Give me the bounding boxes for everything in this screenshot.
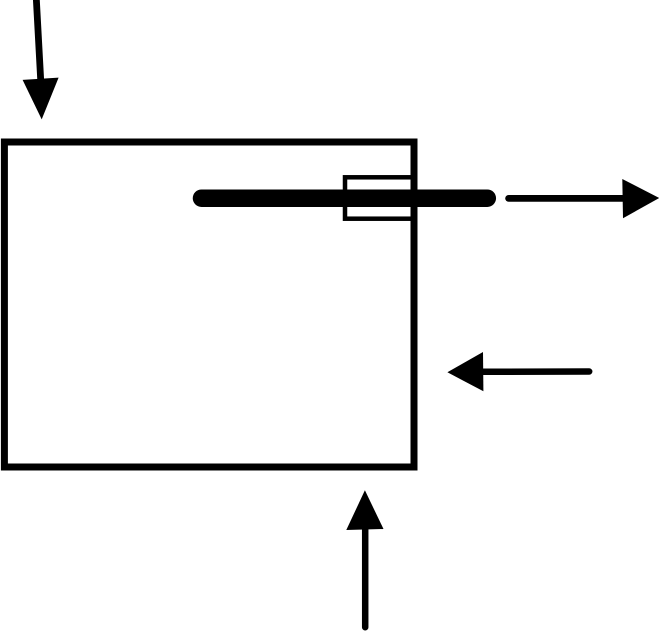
leftward force arrow shaft	[483, 368, 589, 375]
right force arrow head	[622, 179, 659, 218]
top-left downward force arrow head	[23, 78, 59, 120]
leftward force arrow head	[447, 352, 483, 391]
rod (thick horizontal bar)	[202, 189, 488, 207]
bottom upward force arrow shaft	[362, 529, 369, 627]
block (large rectangle)	[4, 142, 414, 467]
bottom upward force arrow head	[346, 490, 383, 530]
top-left downward force arrow shaft	[36, 1, 40, 81]
sleeve (small rectangle on right wall)	[345, 177, 415, 218]
right force arrow shaft	[509, 195, 624, 202]
